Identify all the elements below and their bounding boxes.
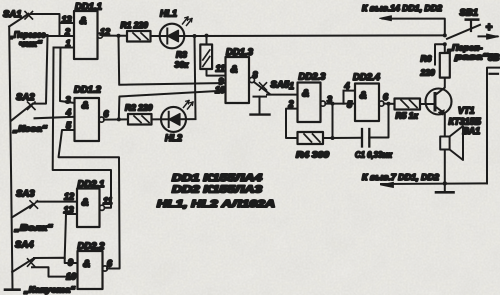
svg-text:C1 0,33мк: C1 0,33мк bbox=[355, 150, 393, 160]
label Kapusta bbox=[23, 285, 76, 295]
svg-text:DD2.3: DD2.3 bbox=[299, 72, 327, 83]
wire +5V top rail bbox=[195, 34, 445, 37]
svg-text:&: & bbox=[82, 101, 89, 112]
svg-text:9: 9 bbox=[68, 258, 73, 268]
svg-text:&: & bbox=[83, 259, 90, 270]
svg-text:11: 11 bbox=[216, 64, 225, 74]
ground bbox=[436, 183, 454, 192]
wire SA4 to DD2.2 pin9 bbox=[34, 258, 78, 263]
resistor R2 bbox=[125, 103, 153, 125]
svg-text:HL2: HL2 bbox=[165, 133, 182, 143]
svg-text:HL1: HL1 bbox=[160, 9, 177, 19]
wire to pin7 arrow (bottom rail) bbox=[362, 172, 487, 188]
svg-text:SA5: SA5 bbox=[271, 80, 290, 91]
svg-text:чик“: чик“ bbox=[19, 39, 43, 49]
wire HL1 node down to HL2 node bbox=[195, 36, 196, 119]
svg-text:R6: R6 bbox=[421, 54, 432, 64]
svg-text:ВА1: ВА1 bbox=[463, 126, 481, 136]
switch SA1 bbox=[3, 9, 33, 27]
svg-text:&: & bbox=[302, 89, 309, 100]
svg-text:К выв.7 DD1, DD2: К выв.7 DD1, DD2 bbox=[362, 172, 439, 182]
svg-text:VT1: VT1 bbox=[458, 106, 475, 116]
wire SA4 to DD2.2 pin10 bbox=[32, 267, 78, 276]
svg-text:КТ315Б: КТ315Б bbox=[449, 117, 482, 127]
svg-text:SA1: SA1 bbox=[3, 9, 21, 20]
svg-text:DD2.4: DD2.4 bbox=[353, 72, 381, 83]
svg-text:R2 220: R2 220 bbox=[125, 103, 153, 113]
capacitor C1 bbox=[333, 104, 393, 160]
wire DD2.3 out to DD2.4 in bbox=[325, 102, 355, 106]
resistor R1 bbox=[121, 20, 151, 42]
resistor R6 bbox=[420, 44, 450, 77]
speaker BA1 bbox=[440, 126, 480, 183]
resistor R3 bbox=[175, 36, 226, 76]
wire pin1 node down to DD2.1 output bbox=[53, 48, 111, 208]
svg-text:&: & bbox=[82, 198, 89, 209]
wire DD2.4 out to R5 bbox=[384, 102, 395, 106]
svg-text:„Волк“: „Волк“ bbox=[13, 223, 53, 233]
svg-text:13: 13 bbox=[62, 15, 72, 25]
wire DD1.1 output to R1 bbox=[102, 34, 127, 38]
wire to pin14 arrow bbox=[362, 3, 447, 37]
svg-text:SA3: SA3 bbox=[16, 189, 35, 200]
LED HL1 bbox=[151, 9, 195, 49]
svg-text:5В: 5В bbox=[488, 53, 500, 63]
wire SA2 to DD1.2 pin4 bbox=[35, 117, 75, 119]
button SB1 bbox=[447, 8, 480, 39]
switch SA2 bbox=[11, 92, 35, 121]
svg-text:SB1: SB1 bbox=[460, 8, 478, 19]
wire DD1.2 pin5 to DD2.2 output bbox=[59, 130, 120, 269]
svg-text:1: 1 bbox=[289, 81, 294, 91]
svg-text:36к: 36к bbox=[175, 60, 189, 70]
svg-text:DD1.2: DD1.2 bbox=[74, 85, 102, 96]
label 5V bbox=[488, 53, 500, 63]
svg-text:10: 10 bbox=[66, 272, 76, 282]
transistor VT1 bbox=[426, 78, 482, 137]
svg-text:„Капуста“: „Капуста“ bbox=[23, 285, 76, 295]
svg-text:„Коза“: „Коза“ bbox=[12, 124, 48, 134]
svg-text:11: 11 bbox=[103, 196, 112, 206]
svg-text:&: & bbox=[360, 91, 367, 102]
wire DD1.2 output to R2 bbox=[104, 117, 128, 121]
label Volk bbox=[13, 223, 53, 233]
stub wire left of R6 bbox=[435, 42, 447, 64]
svg-text:SA4: SA4 bbox=[15, 240, 34, 251]
switch SA5 bbox=[254, 80, 294, 94]
svg-text:К выв.14 DD1, DD2: К выв.14 DD1, DD2 bbox=[362, 3, 442, 13]
svg-text:HL1, HL2 АЛ102А: HL1, HL2 АЛ102А bbox=[157, 199, 275, 210]
switch SA3 bbox=[12, 189, 38, 218]
gate DD2.3 bbox=[288, 72, 333, 123]
minus supply rail right bbox=[487, 68, 500, 184]
resistor R5 bbox=[395, 99, 434, 121]
label Koza bbox=[12, 124, 48, 134]
gate DD2.2 bbox=[66, 241, 113, 289]
svg-text:4: 4 bbox=[344, 81, 350, 91]
svg-text:DD2 К155ЛА3: DD2 К155ЛА3 bbox=[172, 185, 263, 196]
svg-text:220: 220 bbox=[420, 68, 435, 78]
svg-text:+: + bbox=[486, 22, 493, 34]
svg-text:рава“: рава“ bbox=[454, 52, 489, 62]
svg-text:12: 12 bbox=[64, 192, 74, 202]
svg-text:R1 220: R1 220 bbox=[121, 20, 149, 30]
node HL1 / +rail junction bbox=[193, 34, 209, 38]
wire SA3 to DD2.1 pin12 bbox=[37, 201, 78, 203]
label Perevozchik bbox=[9, 30, 48, 49]
wire pin2 down to SA2 contact bbox=[33, 36, 48, 104]
wire DD2.3 pin2 feedback bbox=[286, 109, 298, 138]
gate DD2.1 bbox=[64, 179, 113, 227]
label Pereprava bbox=[446, 43, 489, 62]
svg-text:R4 300: R4 300 bbox=[296, 150, 329, 160]
svg-text:2: 2 bbox=[64, 27, 70, 37]
svg-text:10: 10 bbox=[215, 85, 225, 95]
svg-text:&: & bbox=[231, 65, 238, 76]
svg-text:2: 2 bbox=[288, 99, 294, 109]
svg-text:&: & bbox=[80, 16, 87, 27]
wire pin1 / pin3 tie bbox=[54, 48, 75, 104]
ground bus left bbox=[5, 27, 20, 290]
gate DD1.1 bbox=[62, 2, 111, 60]
svg-text:R5 1к: R5 1к bbox=[396, 111, 419, 121]
SA5 contact 2 to ground bbox=[251, 97, 270, 115]
svg-text:SA2: SA2 bbox=[16, 92, 35, 103]
wire SB1 to +5V arrow bbox=[479, 22, 499, 39]
gate DD1.3 bbox=[215, 47, 258, 103]
switch SA4 bbox=[12, 240, 34, 273]
resistor R4 bbox=[296, 132, 333, 160]
parts list text bbox=[157, 173, 275, 210]
wire SA5 to DD2.3 pin1 bbox=[267, 94, 298, 96]
svg-text:DD1 К155ЛА4: DD1 К155ЛА4 bbox=[172, 173, 263, 184]
wire DD2.1 pin13 down to SA4 node bbox=[65, 214, 77, 258]
LED HL2 bbox=[152, 101, 196, 144]
svg-text:4: 4 bbox=[65, 108, 71, 118]
wire DD1.2 output up to DD1.3 pin10 bbox=[119, 91, 226, 120]
svg-text:R3: R3 bbox=[176, 50, 187, 60]
svg-text:1: 1 bbox=[66, 39, 71, 49]
gate DD2.4 bbox=[344, 72, 390, 121]
wire SA1 to DD1.1 pin13 and pin2 bbox=[31, 14, 74, 36]
svg-text:8: 8 bbox=[253, 70, 258, 80]
wire DD1.1 output down to DD1.3 pin9 bbox=[119, 36, 226, 85]
wire DD2.3 out down to R4/C1 bbox=[331, 104, 335, 140]
gate DD1.2 bbox=[65, 85, 110, 142]
svg-text:3: 3 bbox=[66, 95, 71, 105]
